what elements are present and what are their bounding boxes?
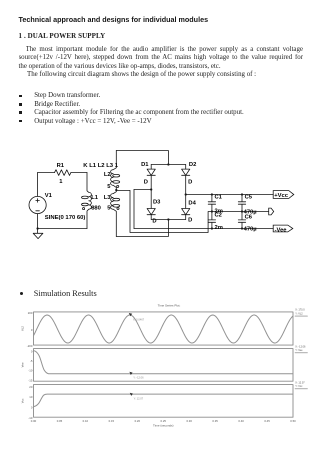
label D4 (188, 201, 196, 207)
wire (134, 189, 151, 191)
capacitor C5 (238, 195, 245, 212)
svg-text:Y: 12.07: Y: 12.07 (134, 397, 144, 401)
svg-text:Time (seconds): Time (seconds) (153, 423, 174, 427)
paragraph line 3 (19, 63, 221, 70)
paragraph line 4 (27, 71, 256, 78)
wire (133, 190, 135, 229)
plot 2 (-Vee) waveform (34, 351, 294, 374)
svg-text:Vee: Vee (21, 362, 25, 367)
svg-text:0: 0 (31, 328, 33, 332)
section heading (19, 32, 106, 40)
plot 3 cursor (130, 393, 144, 401)
svg-text:0: 0 (31, 406, 33, 410)
svg-text:0.20: 0.20 (135, 419, 141, 423)
label R1 (57, 163, 65, 169)
wire (-Vee rail) (134, 228, 273, 230)
value 470µ (244, 210, 257, 216)
junction (167, 218, 169, 220)
svg-text:-15: -15 (28, 378, 32, 382)
svg-text:X: 170.0: X: 170.0 (295, 309, 305, 312)
inductor L3 (secondary lower) (111, 190, 120, 237)
label C2 (215, 212, 222, 218)
label L2 (104, 172, 111, 178)
value D (152, 219, 156, 225)
x tick labels (31, 419, 296, 423)
bullet 2 (19, 103, 22, 106)
document title (19, 15, 209, 24)
bullet 4 (19, 120, 22, 123)
svg-text:X: -12.06: X: -12.06 (295, 345, 306, 348)
svg-text:Y: Vee: Y: Vee (295, 349, 303, 352)
svg-text:0.05: 0.05 (57, 419, 63, 423)
paragraph line 2 (19, 54, 304, 63)
svg-text:0.50: 0.50 (290, 419, 296, 423)
capacitor C2 (208, 212, 215, 229)
capacitor C1 (208, 195, 215, 212)
plot 2 cursor (129, 372, 144, 380)
value 5 (107, 205, 111, 211)
svg-text:X: 12.07: X: 12.07 (295, 381, 305, 384)
legends (295, 309, 308, 389)
junction (241, 227, 243, 229)
net flag 0V (269, 208, 274, 215)
svg-text:0: 0 (31, 350, 33, 354)
ground (33, 229, 43, 239)
svg-text:0.10: 0.10 (83, 419, 89, 423)
svg-text:0.30: 0.30 (186, 419, 192, 423)
label C5 (245, 195, 253, 201)
svg-text:0.35: 0.35 (212, 419, 218, 423)
label C1 (215, 195, 223, 201)
wire (38, 228, 87, 230)
wire (116, 220, 168, 237)
junction (211, 193, 213, 195)
svg-text:Vcc: Vcc (21, 398, 25, 403)
wire (+Vcc rail) (186, 194, 274, 196)
svg-text:20: 20 (29, 385, 33, 389)
junction (211, 210, 213, 212)
svg-text:10: 10 (29, 395, 33, 399)
plot 1 cursor (129, 313, 145, 321)
diode D1 (147, 165, 155, 190)
wire (center tap to mid rail) (116, 190, 212, 232)
svg-text:200: 200 (28, 311, 33, 315)
value 470&#181; (244, 226, 257, 232)
y axis titles (21, 326, 25, 404)
svg-text:Time Series Plot:: Time Series Plot: (158, 303, 181, 307)
svg-text:Y: VL2: Y: VL2 (295, 312, 303, 315)
inductor L1 (transformer primary) (82, 173, 92, 229)
diode D2 (182, 165, 190, 195)
inductor L2 (secondary upper) (111, 151, 120, 191)
value 2m (215, 209, 223, 215)
bullet Simulation Results (20, 292, 23, 295)
svg-text:0.15: 0.15 (109, 419, 115, 423)
junction (167, 163, 169, 165)
svg-text:0.45: 0.45 (264, 419, 270, 423)
paragraph line 1 (26, 46, 304, 55)
svg-text:-10: -10 (28, 369, 32, 373)
junction (241, 193, 243, 195)
wire (116, 151, 168, 165)
resistor R1 (55, 170, 71, 176)
value D (188, 218, 192, 224)
label L1 (91, 195, 99, 201)
axes boxes (34, 312, 294, 417)
plot 3 (+Vcc) waveform (34, 394, 294, 407)
y tick labels (27, 311, 33, 420)
value 880 (91, 206, 101, 212)
value SINE(0 170 60) (45, 215, 86, 221)
junction (241, 210, 243, 212)
coupling directive K L1 L2 L3 1 (83, 163, 118, 169)
svg-text:Y: -12.06: Y: -12.06 (133, 375, 144, 379)
svg-text:-5: -5 (30, 359, 33, 363)
x axis title (153, 423, 174, 427)
label D2 (189, 162, 196, 168)
bullet 3 (19, 111, 22, 114)
value D (144, 179, 148, 185)
net flag -Vee (273, 225, 293, 233)
diode D3 (147, 190, 155, 220)
value 5 (107, 184, 111, 190)
wire (151, 164, 186, 166)
svg-text:0.00: 0.00 (31, 419, 37, 423)
figure title (158, 303, 181, 307)
svg-text:Y: Vcc: Y: Vcc (295, 385, 303, 388)
svg-text:VL2: VL2 (21, 326, 25, 331)
wire (71, 172, 87, 174)
label V1 (45, 193, 53, 199)
plot 1 sine waveform (34, 315, 293, 343)
value 2m (215, 225, 223, 231)
net flag +Vcc (273, 191, 294, 199)
wire (mid rail) (212, 211, 269, 213)
wire (38, 172, 55, 174)
junction (211, 227, 213, 229)
capacitor C6 (238, 212, 245, 229)
wire (151, 219, 186, 221)
value 1 (59, 179, 63, 185)
svg-text:X: 0.0467: X: 0.0467 (133, 317, 145, 321)
label D1 (141, 162, 149, 168)
junction (center tap) (115, 189, 117, 191)
diode D4 (182, 195, 190, 220)
label C6 (245, 215, 253, 221)
value D (188, 179, 192, 185)
svg-text:0.40: 0.40 (238, 419, 244, 423)
junction (150, 188, 152, 190)
label L3 (104, 195, 112, 201)
label D3 (153, 199, 161, 205)
junction (185, 193, 187, 195)
voltage source V1 (29, 173, 46, 229)
bullet 1 (19, 95, 22, 98)
junction (36, 227, 38, 229)
svg-text:-200: -200 (27, 344, 33, 348)
